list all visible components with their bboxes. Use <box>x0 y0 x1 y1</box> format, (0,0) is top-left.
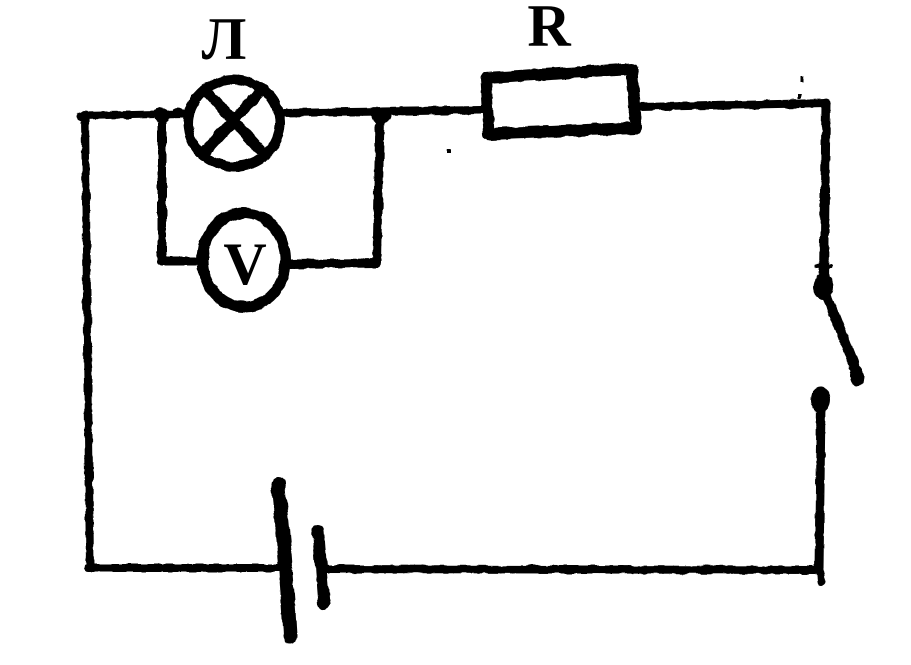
switch S arm (open blade) <box>825 291 864 387</box>
wire bottom horizontal from battery to right corner <box>325 569 821 581</box>
svg-text:Л: Л <box>202 6 247 72</box>
node junction right of lamp <box>371 108 391 124</box>
lamp Л cross stroke 2 <box>203 88 263 154</box>
label Л above lamp <box>202 6 247 72</box>
wire right upper vertical from top corner to switch <box>817 103 831 283</box>
label R <box>527 0 571 59</box>
wire bottom-left horizontal to battery <box>88 564 281 572</box>
wire top-right horizontal from resistor to corner <box>640 103 827 107</box>
wire left parallel branch vertical <box>158 116 167 261</box>
speck left of resistor <box>447 149 451 153</box>
switch S upper contact <box>813 274 833 300</box>
lamp Л cross stroke 1 <box>205 90 265 155</box>
voltmeter V body <box>203 213 286 307</box>
svg-text:V: V <box>223 231 266 297</box>
switch S lower contact <box>811 387 831 413</box>
speck near top right <box>801 76 804 82</box>
wire from lamp to resistor <box>283 110 482 113</box>
resistor R body <box>486 69 636 134</box>
wire right parallel branch vertical <box>377 116 380 262</box>
wire voltmeter left lead <box>162 257 196 266</box>
speck below top-right wire <box>797 94 801 99</box>
node junction left of lamp <box>153 107 184 124</box>
svg-text:R: R <box>527 0 571 59</box>
label V inside voltmeter <box>223 231 266 297</box>
battery cell: long plate <box>278 484 290 636</box>
wire top-left horizontal segment <box>80 114 185 116</box>
wire voltmeter right lead <box>290 263 377 264</box>
lamp Л body circle <box>188 80 280 167</box>
wire left vertical side <box>85 114 90 568</box>
battery cell: short plate <box>318 530 324 604</box>
wire right lower vertical up to switch <box>819 402 821 572</box>
